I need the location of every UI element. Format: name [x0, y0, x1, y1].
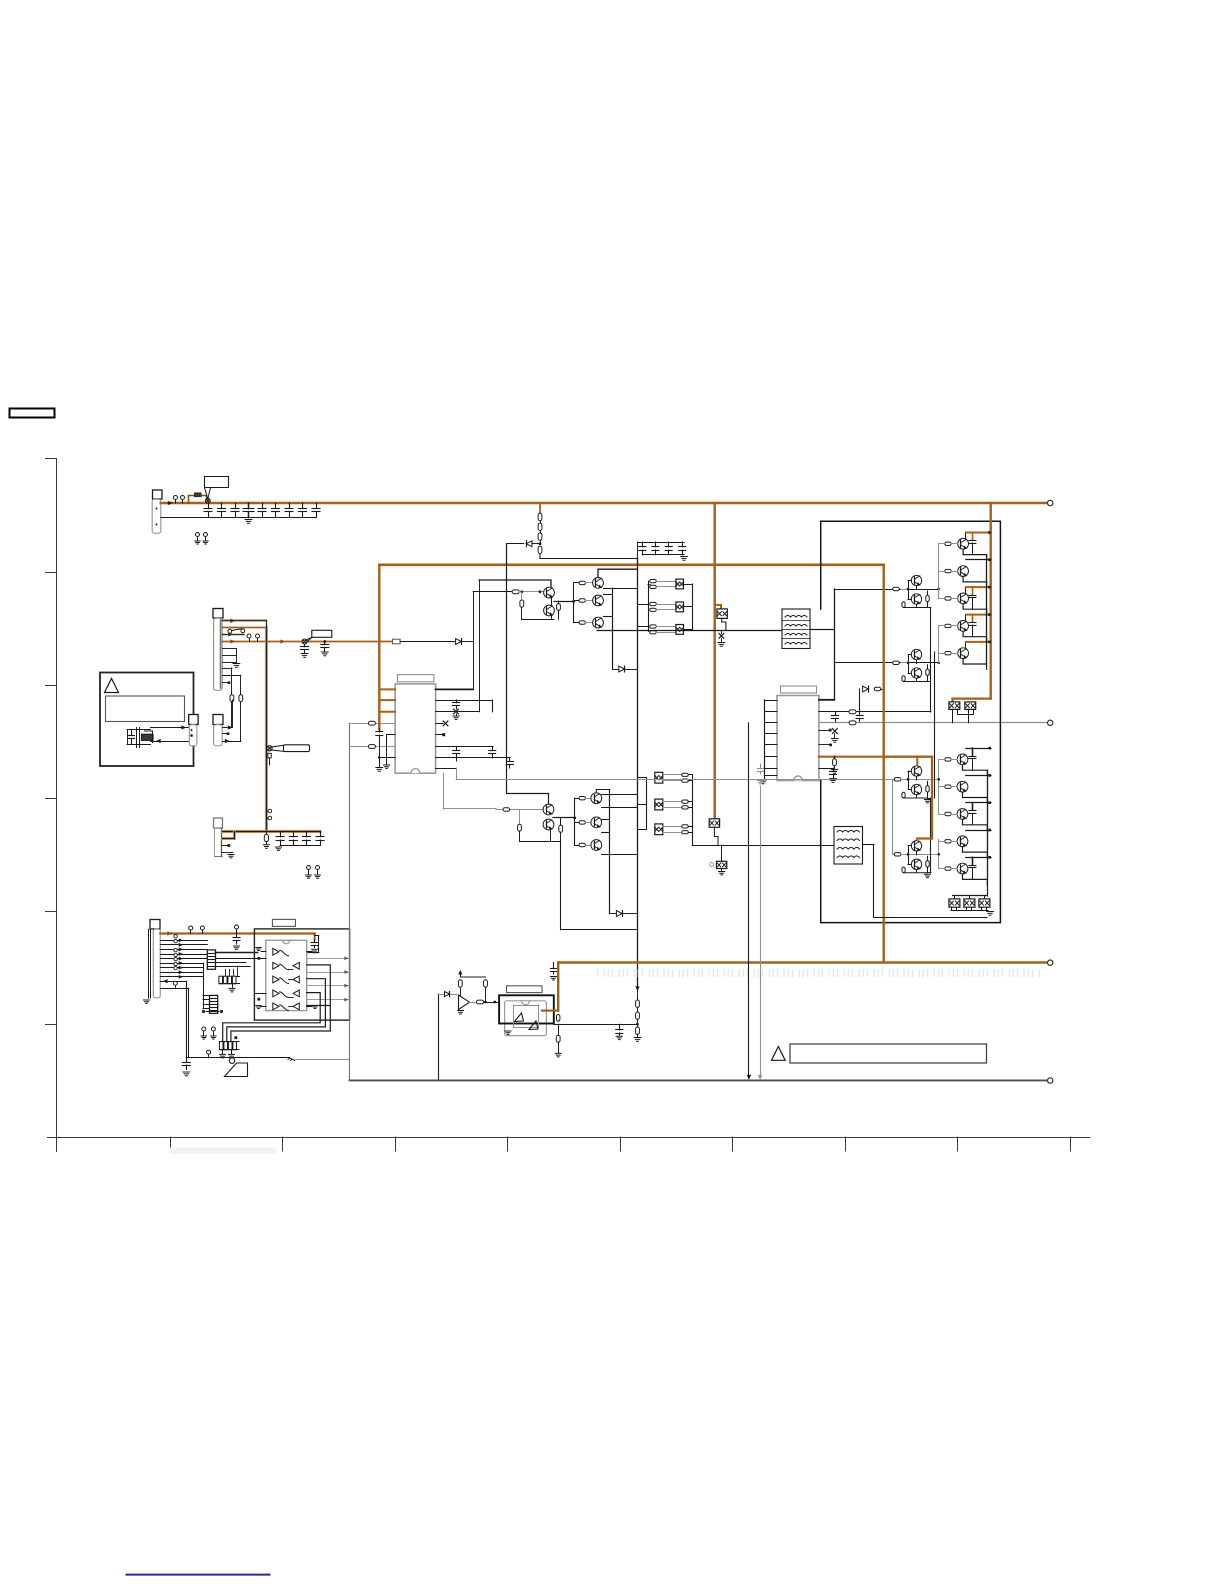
U42 pin2 wire with caps — [819, 710, 931, 723]
resistor R46 to ground — [831, 757, 838, 774]
driver pair QP2 upper transistor — [911, 575, 921, 585]
orange riser x379 — [378, 565, 380, 729]
test point TP1 — [175, 500, 177, 503]
drive wire y662 to bank2 — [834, 661, 938, 664]
logic box label — [272, 919, 295, 926]
pair rail bus wires lower — [928, 723, 935, 873]
connector CN33 — [189, 715, 198, 746]
resistor R43 vertical — [557, 601, 561, 619]
bankA stage 1 cap — [972, 533, 974, 540]
resistor R41 — [512, 590, 519, 594]
U41 pin8 wire under body — [456, 779, 819, 781]
bus wire x506 long — [506, 544, 508, 794]
driver pair QP5 base input — [901, 854, 908, 856]
bankB stage 4 emitter wire — [963, 847, 988, 858]
test points on CN34 bus — [189, 926, 205, 934]
bankA stage 1 base resistor — [945, 542, 951, 545]
capacitor group C41-C44 — [638, 542, 688, 560]
node junction with flag — [205, 477, 229, 504]
wire pin9 down — [223, 675, 243, 741]
output module frame box — [821, 521, 1001, 922]
wire break symbol — [288, 1058, 295, 1060]
IC U41 label box — [397, 675, 434, 682]
U41 pin y757 — [436, 757, 514, 768]
driver pair QP4 — [901, 766, 931, 803]
orange staircase feed — [884, 755, 932, 840]
title block box top-left — [10, 409, 55, 418]
connector CN35 — [214, 818, 223, 857]
driver pair QP4 output resistor — [927, 781, 929, 798]
T42 right wire — [863, 845, 988, 918]
orange feedback elbow — [542, 963, 558, 1011]
cap block CB32 — [219, 1036, 239, 1058]
lower opto group couplers — [638, 772, 693, 845]
lower bank to surge pack bus — [953, 879, 988, 896]
pins 5-7 bracket to ground — [223, 649, 240, 668]
terminal ring mid right — [1048, 720, 1053, 725]
faint reference text row — [598, 970, 1040, 977]
bankA stage 4 emitter wire — [963, 631, 987, 642]
bankA stage 3 base resistor — [945, 597, 951, 600]
connector CN34 — [143, 920, 160, 1004]
base bus trio QT2 — [575, 797, 591, 847]
transistor Q46 — [543, 804, 554, 815]
upper opto group couplers — [638, 579, 693, 634]
arrow on +B bus — [168, 501, 172, 504]
page frame ruler — [10, 409, 1091, 1575]
terminal ring +B right — [1048, 500, 1053, 505]
U41 pin wire y700 with cap zener — [436, 700, 493, 719]
bankB stage 4 collector hat — [966, 830, 991, 832]
footer link underline — [127, 1574, 270, 1576]
gray rows U31 to box edge — [307, 957, 350, 1001]
fuse F31 circuit inside label box — [127, 728, 153, 748]
capacitor C46 — [550, 963, 556, 980]
lower transistor bank base bus — [938, 759, 941, 868]
bankB transistor stage 1 — [957, 754, 968, 765]
bankB stage 3 collector hat — [966, 802, 991, 804]
U41 pin y768 to gray run — [436, 768, 457, 779]
orange vertical feeder x266 — [265, 621, 268, 832]
resistor R33 on orange run — [393, 639, 401, 644]
driver pair QP5 lower transistor — [911, 859, 921, 869]
bankA stage 3 collector hat — [966, 586, 991, 588]
wire second drop — [160, 981, 188, 1057]
orange bus CN35 with black core — [222, 830, 320, 833]
bankA transistor stage 5 — [958, 648, 969, 659]
IC U42 label box — [781, 686, 817, 693]
bankB stage 5 collector hat — [966, 857, 991, 859]
caution label strip — [772, 1044, 987, 1063]
orange +B supply bus wire — [161, 502, 1048, 505]
IC U41 body — [395, 684, 436, 773]
wire caps to regulator chain — [540, 558, 638, 560]
surge pack SA47 — [709, 819, 719, 845]
bankB stage 4 base resistor — [945, 840, 951, 843]
T41 right wire up — [810, 589, 835, 699]
test point pair TP31 — [201, 1027, 216, 1039]
gray branch to pair4 base — [892, 779, 939, 856]
U41 pin zener y723 — [436, 721, 448, 726]
driver pair QP3 upper transistor — [911, 649, 921, 659]
orange stubs to U41 — [378, 689, 395, 713]
test points on pin4 wire — [249, 638, 251, 641]
left margin ruler — [56, 459, 58, 1152]
diode D42 — [613, 666, 638, 672]
right vertical of lower opto group — [692, 775, 694, 845]
wire to diode D31 — [400, 641, 454, 643]
U31 corner grounds — [256, 948, 261, 951]
CN32 pin wires — [223, 700, 241, 743]
bankA stage 4 collector hat — [966, 614, 991, 616]
bus wire x479 — [479, 580, 481, 712]
connector CN32 lower — [213, 715, 223, 746]
resistor network RN31 — [207, 950, 215, 969]
resistors R51 R52 right of U43 — [555, 1015, 561, 1057]
transistor Q43 — [593, 578, 604, 589]
capacitor C47 — [616, 1024, 623, 1039]
test points on feeder x266 — [266, 809, 271, 820]
orange bus2 wire — [379, 563, 883, 566]
driver pair QP3 — [901, 649, 929, 681]
wire diode to bus x473 — [463, 641, 474, 643]
base wire pair QP0 — [496, 808, 543, 811]
transformer T41 — [782, 609, 810, 649]
CN35 pin4 stub to ground — [222, 853, 234, 858]
test point cap at x236 — [233, 925, 240, 949]
QP0 output wire — [553, 817, 576, 820]
bankB stage 2 emitter wire — [963, 792, 988, 803]
bottom axis ruler — [48, 1137, 1091, 1139]
test point pair below bus — [195, 533, 208, 545]
driver pair QP5 output resistor — [927, 856, 929, 873]
bankA stage 2 base resistor — [945, 569, 951, 572]
collector wires QT1 — [598, 569, 638, 616]
wire pin8 down — [223, 668, 234, 728]
bankB transistor stage 3 — [957, 809, 968, 820]
wires RN31 to switch IC — [216, 953, 266, 967]
resistor chain to ground x637 — [634, 991, 641, 1041]
bankB stage 5 cap — [972, 857, 974, 864]
gray wire to ground bus — [295, 1059, 349, 1061]
pair interconnect wires — [522, 597, 554, 620]
U41 pin square y734 — [436, 733, 446, 736]
wire pin1 dark — [223, 620, 267, 622]
CN35 pin3 stub — [222, 844, 230, 847]
bankB stage 2 base resistor — [945, 785, 951, 788]
bankA stage 5 emitter wire — [963, 659, 987, 670]
nested wires U31 to caps — [223, 965, 331, 1042]
drive wire y589 to bank1 — [834, 587, 938, 590]
transistor Q42 — [544, 605, 555, 616]
driver pair QP4 emitter rail — [904, 776, 928, 798]
U31 top pin wire to cap node — [315, 935, 319, 937]
ladder RN32 outputs — [202, 1010, 223, 1013]
surge pack SA41 — [715, 605, 728, 646]
U31 gate rows — [254, 948, 317, 1011]
T42 left wire — [692, 845, 834, 847]
driver pair QP2 — [901, 575, 929, 607]
capacitor C32 — [321, 640, 329, 656]
terminal ring return — [1048, 960, 1053, 965]
capacitor C33 — [182, 1058, 190, 1076]
bankA stage 3 emitter wire — [963, 604, 987, 615]
surge packs SA42 SA43 — [949, 702, 976, 723]
base network wire — [473, 590, 543, 594]
transistor Q45 — [593, 617, 604, 628]
base bus trio QT1 — [574, 581, 593, 624]
bankB transistor stage 4 — [957, 836, 968, 847]
bottom rail wire — [186, 1050, 289, 1058]
IC U42 body — [777, 696, 819, 781]
resistor chain R44 from +B — [507, 503, 542, 558]
cap block CB31 — [219, 966, 240, 992]
bus wire x473 — [473, 592, 475, 690]
U42 pin3 wire to terminal — [819, 720, 1053, 725]
bankA transistor stage 3 — [958, 593, 969, 604]
upper output transistor bank — [939, 531, 991, 669]
driver pair QP5 upper transistor — [911, 841, 921, 851]
U43 arrow element 2 — [529, 1021, 538, 1030]
driver pair QP3 base input — [901, 662, 908, 664]
U41 aux pin wires — [384, 735, 396, 769]
orange drive wire pin6 — [819, 755, 932, 758]
flag jumper J32 on feeder — [267, 745, 310, 765]
capacitor bank C35a-C35d — [275, 832, 324, 851]
U43 arrow element 1 — [515, 1013, 524, 1022]
bankB stage 1 emitter wire — [963, 765, 988, 776]
driver pair QP3 emitter rail — [904, 660, 928, 682]
bankA stage 2 emitter wire — [963, 577, 987, 588]
arrow on bus x637 — [636, 987, 639, 991]
snubber D44 R45 to orange bus — [860, 686, 884, 712]
flag label trapezoid — [205, 488, 211, 500]
QP0 interconnect — [518, 810, 561, 842]
U41 pin y746 caps — [436, 747, 496, 762]
resistor R47 — [559, 818, 563, 842]
bus x609 down — [609, 790, 611, 914]
U42 pin5 stub — [819, 743, 832, 746]
bankB transistor stage 5 — [957, 863, 968, 874]
pair output wire — [554, 600, 575, 603]
vertical wire x748 — [747, 723, 750, 1079]
wire pin3 with open jumper — [223, 629, 245, 636]
bankB stage 3 emitter wire — [963, 819, 988, 830]
warning label box with triangle — [100, 673, 194, 767]
bankA transistor stage 2 — [958, 566, 969, 577]
IC U43 label box — [507, 986, 543, 993]
resistor R42 vertical — [520, 592, 524, 619]
orange bus CN34 — [160, 932, 314, 935]
logic box B31 — [254, 929, 349, 1020]
resistor R32 vertical — [239, 695, 243, 702]
bankA stage 3 cap — [972, 587, 974, 594]
long gray wire x349 — [349, 723, 351, 1080]
driver pair QP2 output resistor — [927, 591, 929, 608]
transistor Q44 — [593, 595, 604, 606]
bankB stage 3 base resistor — [945, 812, 951, 815]
collector feed for pair QP0 — [507, 794, 549, 805]
bankB collector frame bus — [987, 770, 989, 879]
CN34 ribbon wires — [160, 935, 209, 1009]
upper transistor bank base bus — [937, 544, 940, 664]
driver pair QP4 base input — [901, 779, 908, 781]
CN35 pin2 elbow — [222, 832, 234, 839]
connector CN31 upper — [213, 609, 223, 691]
bankB stage 3 cap — [972, 803, 974, 810]
bankA collector frame bus — [986, 555, 988, 664]
U42 pin1 wire — [819, 699, 834, 701]
flag jumper J31 on pin4 — [302, 630, 332, 644]
collector wires QT2 — [596, 790, 637, 855]
buffer output resistor R50 — [470, 1000, 500, 1004]
bankA transistor stage 1 — [958, 538, 969, 549]
return wire y630 — [597, 630, 782, 632]
bankA stage 5 base resistor — [945, 652, 951, 655]
driver pair QP2 base input — [901, 589, 908, 591]
switch IC U31 body — [266, 940, 307, 1010]
feedback buffer Q51 — [438, 991, 469, 1080]
bias resistors R48 R49 — [458, 971, 487, 1002]
orange bus end cap to ground — [307, 934, 319, 953]
terminal ring ground — [1048, 1078, 1053, 1083]
U43 inner ground — [505, 1031, 511, 1034]
IC U43 photocoupler body — [499, 995, 554, 1035]
orange bus x883 — [883, 565, 885, 963]
orange return bus to terminal — [558, 961, 1047, 964]
diode D45 — [610, 911, 638, 917]
driver pair QP4 lower transistor — [911, 784, 921, 794]
bankB stage 1 cap — [972, 748, 974, 755]
pair rail bus wires upper — [928, 608, 935, 723]
wire CN34 pin to bottom rail — [160, 980, 186, 1058]
surge packs SA44-SA46 — [949, 896, 994, 915]
ground of cap bank — [245, 520, 252, 524]
wire pin10 stub — [223, 681, 231, 684]
connector P30 top-left — [152, 490, 162, 533]
gray drive wire y779 — [819, 778, 939, 781]
U42 pin7 cap to ground — [819, 768, 837, 782]
bankB stage 2 collector hat — [966, 775, 991, 777]
flag marker with trapezoid — [225, 1058, 248, 1077]
bankB stage 5 emitter wire — [963, 874, 988, 885]
zener D43 — [719, 633, 724, 638]
driver pair QP3 output resistor — [927, 665, 929, 682]
fusible link on bus — [189, 493, 207, 503]
decoupling capacitor bank C30x — [161, 503, 320, 523]
bankB stage 1 base resistor — [945, 758, 951, 761]
U43 output wire y1024 — [554, 1024, 638, 1026]
capacitor C48 under riser — [376, 729, 395, 771]
test point TP2 — [182, 500, 184, 503]
bankB transistor stage 2 — [957, 781, 968, 792]
orange riser x990 — [990, 503, 992, 699]
bankA stage 4 base resistor — [945, 624, 951, 627]
diode D31 — [456, 639, 462, 645]
driver pair QP2 emitter rail — [904, 586, 928, 608]
orange feeder wire x714 — [714, 503, 716, 819]
diode D41 — [507, 543, 524, 545]
transistor Q41 — [544, 587, 555, 598]
resistor R31 vertical — [230, 695, 234, 702]
collector rail upper pair — [479, 580, 551, 587]
bankA stage 1 emitter wire — [963, 549, 987, 560]
transistor Q48 — [591, 793, 602, 804]
right vertical of opto group — [692, 584, 694, 630]
fuse F35 on bus — [263, 832, 269, 849]
transistor Q50 — [591, 840, 602, 851]
driver pair QP5 emitter rail — [904, 851, 928, 873]
fuse mark below J32 — [268, 753, 271, 758]
wires label box to CN33 — [151, 726, 189, 743]
test point pair TP35 — [306, 866, 321, 879]
lower output transistor bank — [939, 747, 991, 885]
bankA stage 5 collector hat — [966, 641, 991, 643]
resistor network RN32 — [210, 995, 218, 1013]
bankB stage 5 base resistor — [945, 867, 951, 870]
capacitor C45 at U42 left — [757, 764, 763, 784]
bankB stage 1 collector hat — [966, 748, 991, 750]
surge pack SA48 with LED — [710, 845, 727, 875]
transformer T42 — [834, 827, 863, 865]
transistor Q47 — [543, 819, 554, 830]
capacitor C31 at flag — [301, 644, 309, 657]
U41 left pin wires — [349, 721, 395, 748]
driver pair QP3 lower transistor — [911, 668, 921, 678]
U41 pin wire y711 — [436, 711, 479, 713]
vertical wire x760 — [758, 786, 761, 1079]
ribbon bends to lower ladder — [203, 963, 205, 995]
wire pin4 orange main — [223, 641, 393, 643]
bankA stage 2 collector hat — [966, 559, 991, 561]
bankA transistor stage 4 — [958, 621, 969, 632]
main vertical bus x637 — [637, 558, 639, 987]
U41 pin wire y689 up — [436, 688, 474, 690]
wire pin2 orange — [223, 627, 267, 629]
transistor Q49 — [591, 817, 602, 828]
wire x560 to y929 — [561, 841, 638, 929]
driver pair QP5 — [901, 841, 931, 878]
bankA stage 1 collector hat — [966, 532, 991, 534]
U42 pin4 zener to ground — [819, 729, 838, 743]
driver pair QP4 upper transistor — [911, 766, 921, 776]
bus wire x612 — [612, 588, 614, 669]
main ground bus bottom — [349, 1079, 1047, 1081]
bankA stage 4 cap — [972, 615, 974, 622]
U42 left pin bus — [760, 700, 777, 784]
driver pair QP2 lower transistor — [911, 594, 921, 604]
U41 base drive out — [443, 773, 496, 809]
orange link to surge packs — [953, 699, 991, 702]
